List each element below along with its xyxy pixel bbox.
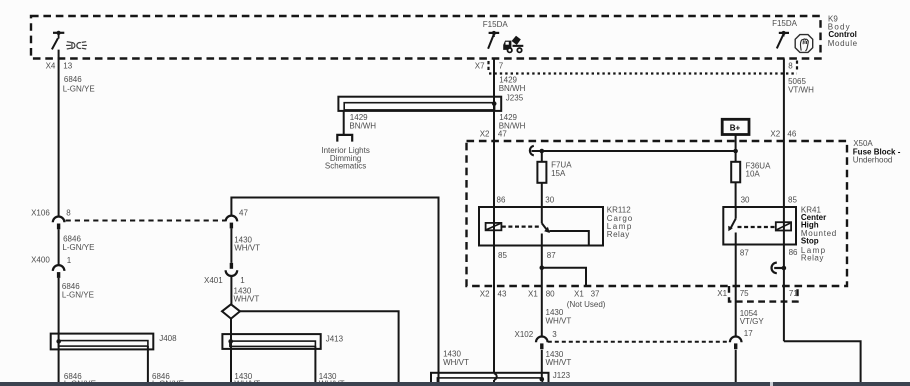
bottom window bar — [0, 382, 910, 386]
wire J235 left drop (1429 BN/WH) — [343, 111, 345, 135]
wire KR112 pin 87 to X1 80 — [541, 246, 543, 338]
svg-text:WH/VT: WH/VT — [234, 243, 260, 252]
wire label 1430 WH/VT (below pin 80) — [546, 308, 572, 325]
wire labels 1430 WH/VT (below J413) — [234, 372, 344, 386]
connector X401 pin 1 — [204, 263, 245, 285]
contact KR112 pin 30 — [542, 207, 550, 233]
wire KR41 pin 87 to X1 75 — [735, 245, 737, 338]
svg-text:8: 8 — [788, 61, 793, 70]
dashed link KR41 contact to coil — [738, 226, 776, 228]
wire label 1429 BN/WH (below J235) — [499, 113, 526, 130]
svg-text:L-GN/YE: L-GN/YE — [62, 291, 94, 300]
svg-text:17: 17 — [744, 329, 753, 338]
svg-text:B+: B+ — [730, 124, 741, 133]
wire diamond to J413 — [230, 319, 232, 382]
svg-text:X102: X102 — [515, 330, 534, 339]
svg-text:1: 1 — [240, 276, 245, 285]
pin labels X2 43 / X1 80 / X1 37 (Not Used) — [480, 290, 606, 309]
pin labels 86 30 (KR112 top) — [497, 195, 555, 204]
svg-text:X2: X2 — [480, 290, 490, 299]
wire BCM X4 pin 13 to X106 (6846 L-GN/YE) — [58, 50, 60, 217]
connector X106 pin 8 — [31, 209, 71, 230]
coil KR112 — [486, 223, 502, 230]
svg-text:F15DA: F15DA — [483, 20, 509, 29]
svg-text:X2: X2 — [480, 129, 490, 138]
svg-text:Schematics: Schematics — [325, 162, 366, 171]
svg-text:F15DA: F15DA — [772, 19, 798, 28]
lead KR112 pin 87 — [541, 234, 543, 246]
svg-text:Relay: Relay — [607, 230, 630, 239]
wire label 1430 WH/VT — [234, 235, 260, 252]
svg-text:30: 30 — [545, 195, 554, 204]
svg-text:85: 85 — [788, 196, 797, 205]
switch S1 interior lamp driver (left, in BCM) — [52, 31, 64, 50]
svg-text:37: 37 — [591, 290, 600, 299]
svg-text:X1: X1 — [574, 290, 584, 299]
icon stop hand octagon — [795, 35, 813, 53]
pin labels 85 87 (KR112 bottom) — [498, 251, 556, 260]
svg-text:47: 47 — [498, 129, 507, 138]
connector tab X1 (pins 75 71) — [729, 286, 798, 302]
wire J413 right output — [314, 346, 316, 382]
svg-text:J413: J413 — [326, 335, 344, 344]
connector X102 pin 3 — [515, 330, 558, 349]
svg-text:46: 46 — [787, 129, 796, 138]
svg-text:X401: X401 — [204, 276, 223, 285]
svg-text:Module: Module — [828, 39, 858, 48]
coil KR41 — [776, 222, 791, 230]
svg-text:X400: X400 — [31, 256, 50, 265]
pin label X2 47 — [480, 129, 508, 138]
wire 47 to X401 (1430 WH/VT) — [230, 228, 232, 263]
wire label 1430 WH/VT (right branch) — [443, 349, 469, 367]
splice J408 — [51, 334, 177, 350]
connector X7 tick — [487, 61, 489, 71]
wire label 1054 VT/GY — [740, 309, 765, 326]
wire KR41 86 / 71 route right and down — [784, 341, 861, 382]
wire label 6846 L-GN/YE — [62, 282, 94, 299]
svg-text:85: 85 — [498, 251, 507, 260]
battery feed B+ — [722, 119, 749, 134]
wire X400 to J408 (6846 L-GN/YE) — [58, 278, 60, 382]
label Interior Lights Dimming Schematics — [321, 146, 369, 171]
svg-text:Relay: Relay — [801, 253, 824, 262]
wire label 1430 WH/VT — [234, 286, 260, 303]
svg-text:J408: J408 — [159, 334, 177, 343]
svg-text:WH/VT: WH/VT — [546, 317, 572, 326]
icon courtesy lamps — [66, 42, 87, 49]
wire label 5065 VT/WH — [788, 77, 814, 95]
wire label 1429 BN/WH (above J235) — [499, 75, 526, 93]
wire B+ drop — [735, 135, 737, 152]
wire label 6846 L-GN/YE — [63, 75, 95, 93]
svg-text:3: 3 — [552, 330, 557, 339]
label KR41 Center High Mounted Stop Lamp Relay — [801, 205, 837, 262]
pin label X4 13 — [46, 62, 73, 71]
svg-text:BN/WH: BN/WH — [349, 121, 376, 130]
dashed link X106 to connector 47 — [66, 220, 226, 222]
svg-text:75: 75 — [740, 289, 749, 298]
svg-text:WH/VT: WH/VT — [234, 295, 260, 304]
relay KR41 Center High Mounted Stop Lamp Relay — [723, 207, 796, 245]
svg-text:87: 87 — [547, 251, 556, 260]
connector 47 — [226, 209, 249, 229]
label X50A Fuse Block - Underhood — [853, 139, 901, 165]
label K9 Body Control Module — [828, 15, 858, 48]
svg-text:X2: X2 — [770, 129, 780, 138]
pin label 8 — [788, 61, 793, 70]
splice J413 — [222, 334, 343, 349]
svg-text:J123: J123 — [553, 371, 571, 380]
svg-text:86: 86 — [789, 248, 798, 257]
svg-text:(Not Used): (Not Used) — [567, 300, 606, 309]
icon cargo truck — [503, 36, 523, 53]
svg-text:15A: 15A — [551, 169, 566, 178]
svg-text:80: 80 — [546, 290, 555, 299]
pin label X2 46 — [770, 129, 796, 138]
svg-text:Stop: Stop — [801, 237, 819, 246]
wire label 1429 BN/WH (left) — [349, 113, 376, 130]
wire connector 17 to bottom — [735, 350, 737, 382]
power bus hook — [530, 146, 534, 156]
svg-text:VT/WH: VT/WH — [788, 86, 814, 95]
fuse switch F15DA (middle, in BCM) — [483, 20, 509, 49]
wire labels 6846 L-GN/YE (below J408) — [64, 372, 184, 386]
branch stub connector on KR41 86 wire — [772, 263, 787, 274]
relay KR112 Cargo Lamp Relay — [479, 207, 603, 246]
fuse block X50A dashed box — [467, 141, 848, 286]
svg-text:X106: X106 — [31, 209, 50, 218]
fuse F36UA 10A — [731, 151, 771, 207]
lead KR41 pin 87 — [735, 233, 737, 245]
off-page reference to Interior Lights Dimming Schematics — [337, 135, 352, 142]
svg-text:8: 8 — [66, 209, 71, 218]
pin 8 tick — [796, 61, 798, 72]
connector X7 dotted boundary — [489, 72, 797, 74]
contact 87 step KR112 — [549, 231, 589, 246]
wire J408 right output — [147, 346, 149, 382]
pin labels 87 86 (KR41 bottom) — [740, 248, 798, 258]
svg-text:Control: Control — [828, 30, 856, 39]
splice J123 — [431, 371, 571, 386]
splice diamond — [222, 304, 240, 318]
svg-text:86: 86 — [497, 195, 506, 204]
wire hop over J123 — [494, 373, 497, 382]
svg-text:1429: 1429 — [499, 75, 517, 84]
fuse F7UA 15A — [537, 151, 572, 207]
label KR112 Cargo Lamp Relay — [607, 206, 633, 240]
svg-text:Underhood: Underhood — [853, 156, 893, 165]
svg-text:X1: X1 — [528, 290, 538, 299]
svg-text:L-GN/YE: L-GN/YE — [63, 84, 95, 93]
wire BCM pin 8 to KR41 85 (5065 VT/WH) — [783, 59, 785, 342]
svg-text:WH/VT: WH/VT — [443, 358, 469, 367]
wire X401 to diamond (1430 WH/VT) — [230, 276, 232, 305]
wire label 6846 L-GN/YE — [62, 235, 94, 253]
dashed link X102 to connector 17 — [548, 341, 730, 343]
connector pin 17 — [730, 329, 753, 349]
module K9 Body Control Module dashed box — [31, 16, 821, 59]
wire power bus — [532, 149, 738, 154]
fuse switch F15DA (right, in BCM) — [772, 19, 798, 48]
svg-text:7: 7 — [499, 61, 504, 70]
svg-text:WH/VT: WH/VT — [546, 358, 572, 367]
dashed link KR112 coil to contact — [502, 226, 540, 228]
svg-text:87: 87 — [740, 249, 749, 258]
wire loop top from 47 to right branch — [231, 198, 438, 383]
splice J235 — [338, 93, 523, 110]
pin label X7 7 — [475, 61, 504, 70]
wire label 1430 WH/VT (below X102) — [546, 350, 572, 367]
svg-text:VT/GY: VT/GY — [740, 317, 765, 326]
svg-text:BN/WH: BN/WH — [499, 84, 526, 93]
svg-text:1: 1 — [67, 256, 72, 265]
wire BCM X7 pin 7 down through J235 to fuse block X2 47 (1429 BN/WH) — [493, 59, 495, 374]
wire diamond branch right — [240, 311, 399, 382]
svg-text:71: 71 — [789, 289, 798, 298]
svg-text:43: 43 — [498, 290, 507, 299]
pin labels X1 75 / 71 — [717, 289, 798, 298]
contact KR41 pin 30 — [728, 207, 736, 231]
svg-text:47: 47 — [239, 209, 248, 218]
svg-text:X4: X4 — [46, 62, 56, 71]
svg-text:X1: X1 — [717, 289, 727, 298]
wire X102 to J123 (1430 WH/VT) — [540, 350, 545, 382]
svg-text:6846: 6846 — [64, 75, 82, 84]
svg-text:30: 30 — [741, 196, 750, 205]
pin labels 30 85 (KR41 top) — [741, 196, 798, 205]
svg-text:J235: J235 — [506, 93, 524, 102]
svg-text:10A: 10A — [746, 169, 761, 178]
svg-text:L-GN/YE: L-GN/YE — [62, 243, 94, 252]
svg-text:X7: X7 — [475, 61, 485, 70]
wire branch to X1 37 not used — [540, 265, 587, 286]
wire X106 to X400 (6846 L-GN/YE) — [58, 229, 60, 265]
svg-text:13: 13 — [63, 62, 72, 71]
connector X400 pin 1 — [31, 256, 72, 278]
